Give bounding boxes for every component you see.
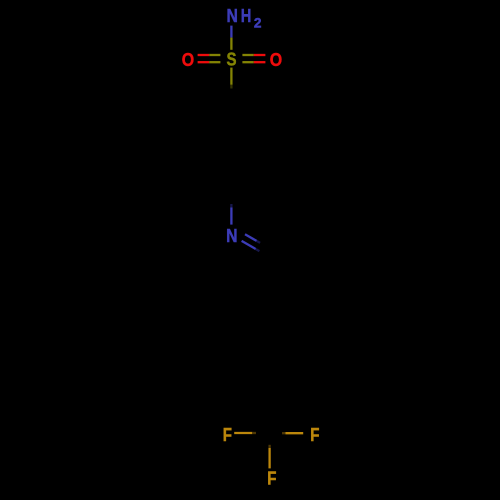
bond C-F bottom, F-colored half with fade bbox=[268, 445, 270, 469]
double bond S=O left, line 1 bbox=[198, 54, 221, 56]
bond C-F left, F-colored half with fade bbox=[234, 432, 256, 434]
svg-text:F: F bbox=[223, 424, 232, 445]
svg-text:O: O bbox=[182, 49, 194, 70]
svg-text:F: F bbox=[310, 424, 319, 445]
bond N-S lower half (S side) bbox=[230, 38, 232, 50]
bond S to ring carbon, S-colored half with fade bbox=[230, 68, 232, 89]
svg-text:N: N bbox=[227, 5, 238, 26]
double bond S=O right, line 1 bbox=[242, 54, 265, 56]
bond C-F right, F-colored half with fade bbox=[282, 432, 303, 434]
double bond S=O right, line 2 bbox=[242, 61, 265, 63]
amine group NH2 bbox=[227, 5, 262, 31]
svg-text:H: H bbox=[241, 5, 252, 26]
double bond N=C second line, N-colored half with fade bbox=[245, 234, 260, 243]
svg-text:N: N bbox=[226, 225, 237, 246]
double bond N=C main line, N-colored half with fade bbox=[242, 241, 260, 251]
svg-text:O: O bbox=[270, 49, 282, 70]
double bond S=O left, line 2 bbox=[198, 61, 221, 63]
svg-text:2: 2 bbox=[254, 16, 262, 31]
bond ring carbon to imine N, N-colored half with fade bbox=[230, 204, 232, 225]
bond N-S upper half (N side) bbox=[230, 26, 232, 38]
svg-text:S: S bbox=[227, 49, 237, 70]
svg-text:F: F bbox=[267, 467, 276, 488]
